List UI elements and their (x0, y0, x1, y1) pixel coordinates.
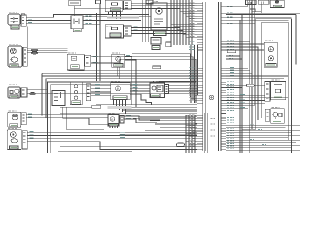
extra verticals left of E1 (143, 0, 149, 42)
right mid bus rows (226, 84, 265, 86)
wire W8 pump feed (27, 50, 67, 53)
blower unit bottom center (108, 115, 119, 127)
strip (86, 84, 91, 101)
vertical trunk at x96.5 (96, 13, 98, 81)
bottom center bus rows (96, 104, 197, 106)
wires right (26, 114, 108, 116)
connector strip (85, 55, 91, 66)
door lock unit right (264, 42, 277, 67)
long wire to column (27, 93, 197, 95)
bundle to pin connectors top (171, 3, 197, 37)
connector strip X1 (21, 15, 26, 26)
wire across top (74, 8, 180, 10)
connector label C101 (11, 25, 19, 29)
washer pump M1 box (8, 46, 22, 67)
col2 mid wires to door unit (226, 40, 250, 42)
gap verticals (205, 113, 208, 153)
bullet terminal (30, 93, 36, 95)
G1 wire right (125, 56, 132, 105)
right verticals top (248, 0, 254, 153)
top right lamp unit G2 (270, 0, 284, 8)
oval label C15 (177, 143, 185, 146)
door connector tall (70, 82, 82, 105)
big container box center (48, 82, 197, 153)
column 1 pins (197, 3, 203, 149)
junction box top 2 (146, 0, 153, 4)
column 2 pins (221, 7, 226, 150)
washer sensor box (67, 54, 84, 70)
fuse F1 box top middle (105, 0, 122, 11)
bullet terminals (31, 49, 37, 51)
wires right with step (124, 116, 160, 120)
heater motor bottom-left (8, 112, 21, 127)
long label row (107, 16, 139, 18)
bundle continuation bottom (186, 115, 195, 153)
strip right (120, 116, 124, 124)
wires to column (169, 85, 197, 91)
E2 label (152, 46, 160, 50)
wires from connector to bundle (131, 3, 178, 8)
G1 wires down (118, 67, 120, 78)
fuel gauge sender G1 (112, 54, 125, 67)
wiper motor M2 (8, 87, 20, 98)
wires right (27, 131, 196, 133)
small label box (92, 105, 101, 108)
small box E3 (166, 42, 171, 47)
small label on bus (153, 66, 161, 69)
long label bar (107, 106, 131, 109)
nested routing rect R1 (132, 54, 191, 97)
wire W7 relay out (83, 23, 100, 25)
wire W6 relay out (83, 20, 141, 22)
wire into label (60, 106, 92, 108)
fuse box label C202 top edge (69, 0, 81, 6)
pump unit bottom-left 2 (7, 130, 21, 150)
right bottom bus rows (226, 124, 300, 126)
bundle to pin connectors bottom (186, 115, 197, 149)
nested routing rect R3 (91, 59, 196, 103)
strip (22, 131, 27, 149)
E1 label box (154, 31, 167, 36)
column 2 pin labels (227, 6, 234, 149)
wire bundle vertical lines (171, 0, 192, 45)
wire labels (134, 27, 138, 30)
right bend wires (250, 9, 255, 12)
connector right of K2 (124, 26, 132, 36)
stepped wires lower center (140, 117, 190, 119)
component S1 washer switch top-left (8, 14, 20, 25)
far right verticals (295, 15, 297, 65)
connector right of F1 (124, 1, 132, 10)
bottom bus wires of mid section (69, 70, 197, 72)
strip (21, 113, 26, 125)
wire W5 relay out (83, 16, 151, 18)
mid connectors (191, 96, 197, 101)
wires right (91, 85, 111, 95)
top right small unit G0 (246, 0, 257, 5)
big right container rects (255, 19, 291, 153)
junction box top (96, 0, 101, 4)
wires from K2 to bundle (131, 28, 186, 34)
pin column 2 body (219, 2, 221, 151)
F1 pin drops (109, 12, 121, 19)
horn unit right lower (265, 109, 270, 121)
small box E2 (151, 38, 161, 45)
svg-text:G: G (117, 57, 121, 62)
strip (165, 85, 169, 94)
wire labels near steps (120, 132, 125, 137)
wire labels (86, 16, 92, 24)
wire W1 (26, 15, 148, 18)
relay K2 box (105, 25, 123, 38)
speaker unit right upper (265, 82, 270, 102)
relay K1 (71, 16, 83, 29)
wire W3 (26, 22, 71, 24)
oval label (247, 84, 255, 87)
vertical trunk at x100 (99, 4, 101, 81)
relay in container (52, 91, 65, 106)
control unit E1 tall box (151, 3, 167, 30)
pin column 1 body (203, 2, 206, 151)
sensor pin steps (141, 98, 152, 105)
svg-text:e: e (111, 118, 113, 122)
column 1 pin labels (189, 3, 195, 146)
right side: wires from col2 top (226, 6, 248, 8)
vertical feeders left (42, 73, 46, 118)
sensor box center right (150, 83, 165, 98)
wire color labels (28, 20, 32, 23)
col2 mid-low rows (226, 67, 248, 69)
M2 connector strip (21, 88, 27, 97)
relay label box (73, 29, 81, 32)
grommet circle (209, 95, 214, 100)
wire W2 (26, 20, 71, 22)
M1 label box (10, 64, 18, 67)
connector strip M1 (23, 47, 27, 66)
wire from label to relay (73, 6, 75, 16)
wire W4 drop to pump (26, 26, 28, 47)
ECU pins down (114, 100, 126, 114)
component name texts (8, 2, 279, 129)
top right small unit G1 (258, 0, 269, 4)
ECU wires right (130, 85, 150, 97)
ECU center box (111, 83, 130, 100)
nested routing rect R2 (91, 57, 193, 100)
col2 mid rows small (226, 55, 240, 57)
bundle continuation mid (191, 45, 198, 103)
vertical feeders right (240, 15, 242, 154)
wire labels (93, 56, 98, 62)
